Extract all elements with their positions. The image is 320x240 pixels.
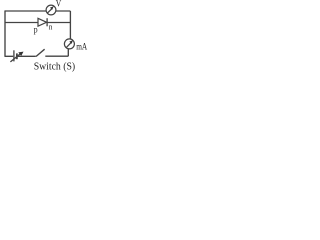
svg-text:p: p xyxy=(34,24,38,34)
svg-text:Switch (S): Switch (S) xyxy=(34,61,75,72)
svg-text:mA: mA xyxy=(76,42,87,53)
svg-text:V: V xyxy=(56,0,62,8)
svg-text:n: n xyxy=(49,22,53,32)
